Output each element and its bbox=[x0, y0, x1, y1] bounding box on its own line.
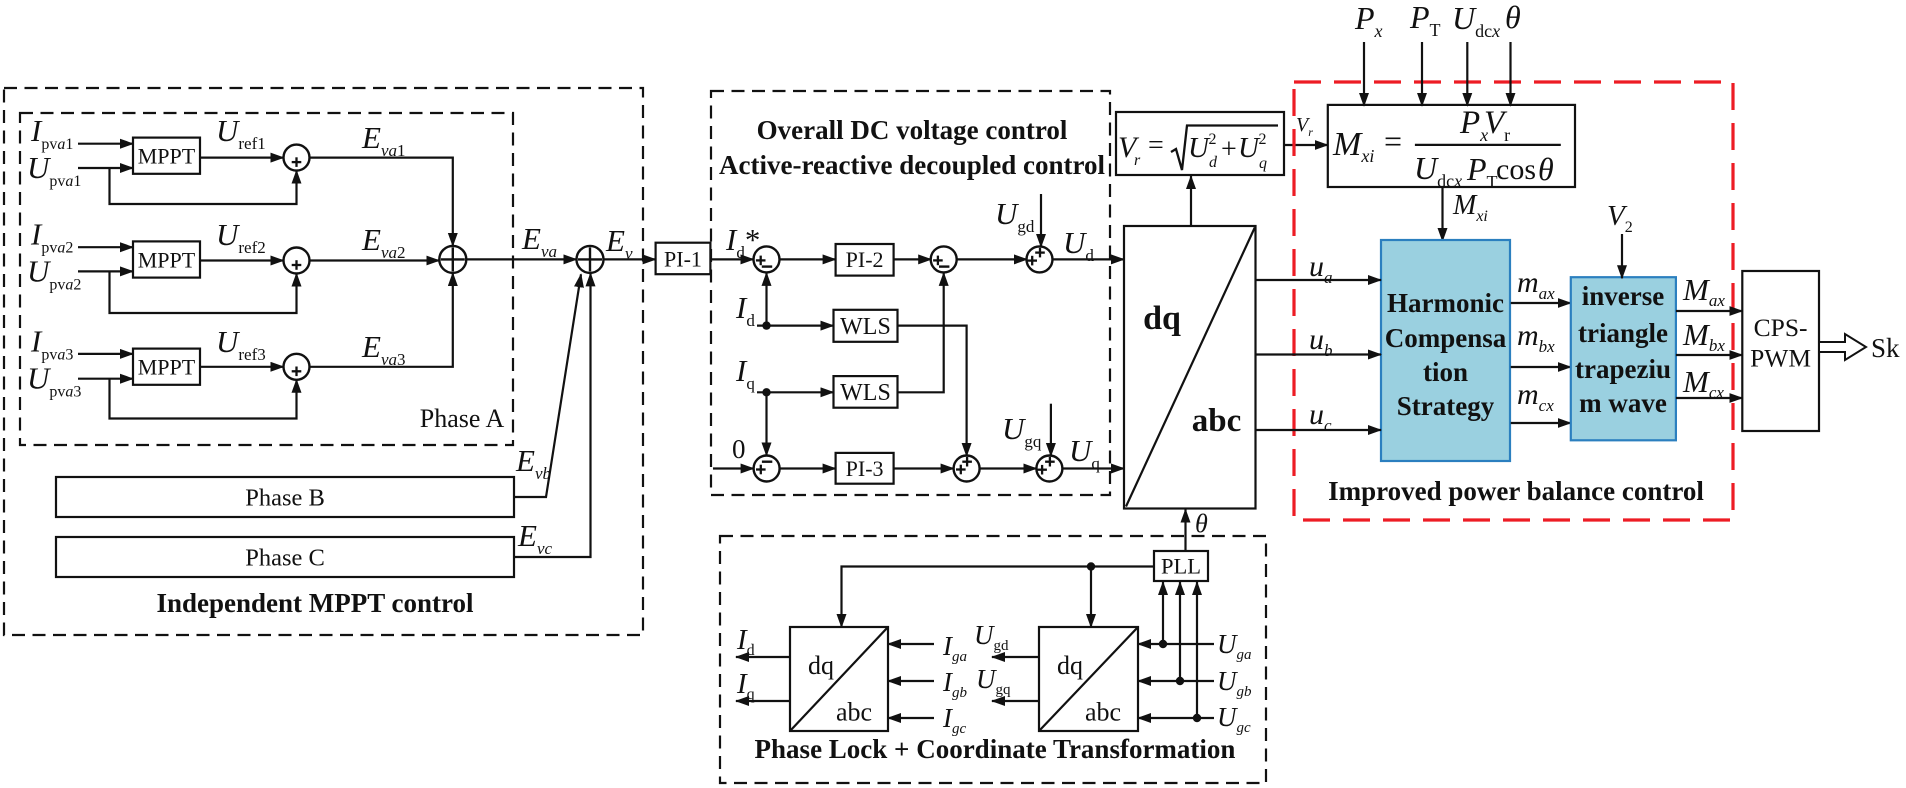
wire Vr to Mxi box bbox=[1284, 144, 1328, 146]
svg-text:PLL: PLL bbox=[1161, 554, 1201, 579]
block dq/abc current transform bbox=[790, 627, 888, 731]
svg-text:Overall DC voltage control: Overall DC voltage control bbox=[757, 115, 1068, 145]
wire I_pva2 input bbox=[78, 246, 133, 248]
svg-text:Strategy: Strategy bbox=[1397, 391, 1495, 421]
red dashed box: Improved power balance control bbox=[1294, 82, 1733, 520]
wire U_gb input bbox=[1138, 680, 1214, 682]
wire junction2 to junction3 bbox=[957, 258, 1027, 260]
svg-text:Phase A: Phase A bbox=[420, 404, 505, 433]
svg-text:r: r bbox=[1134, 152, 1141, 169]
wire U_gc tap to PLL bbox=[1196, 582, 1198, 718]
svg-text:PI-2: PI-2 bbox=[846, 247, 884, 272]
wire m_ax to inverse triangle box bbox=[1511, 302, 1571, 304]
svg-text:q: q bbox=[1259, 155, 1267, 172]
svg-text:2: 2 bbox=[1259, 131, 1267, 148]
wire m_cx to inverse triangle box bbox=[1511, 422, 1571, 424]
svg-text:WLS: WLS bbox=[840, 314, 891, 340]
wire U_gq into junction 6 bbox=[1050, 404, 1052, 456]
junction dot U_ga tap bbox=[1159, 640, 1167, 648]
wire M_ax to CPS-PWM bbox=[1676, 310, 1742, 312]
wire E_va to three-phase adder bbox=[466, 258, 576, 260]
svg-text:CPS-: CPS- bbox=[1754, 313, 1808, 342]
wire U_dcx into Mxi box bbox=[1466, 42, 1468, 106]
wire U_gb tap to PLL bbox=[1179, 582, 1181, 681]
block dq/abc voltage transform bbox=[1039, 627, 1138, 731]
summing junction 4 (+,-) bbox=[754, 456, 780, 482]
wire junction4 to PI-3 bbox=[780, 467, 836, 469]
wire E_va2 to phase adder bbox=[310, 259, 440, 261]
wire M_bx to CPS-PWM bbox=[1676, 354, 1742, 356]
svg-text:dq: dq bbox=[1057, 651, 1083, 680]
wire WLS2 output up to junction 2 bbox=[898, 273, 944, 392]
wire V_2 into inverse triangle box bbox=[1621, 234, 1623, 278]
wire E_va1 to phase adder bbox=[310, 158, 453, 246]
wire E_vc from Phase C to adder bbox=[514, 273, 591, 557]
svg-text:Active-reactive decoupled cont: Active-reactive decoupled control bbox=[719, 150, 1105, 180]
svg-text:WLS: WLS bbox=[840, 380, 891, 406]
svg-text:θ: θ bbox=[1195, 509, 1208, 538]
wire feedback U_pva2 to adder 2 bbox=[110, 271, 297, 313]
block PI-3 bbox=[836, 453, 894, 484]
svg-text:cos: cos bbox=[1496, 153, 1536, 186]
svg-text:2: 2 bbox=[1209, 131, 1217, 148]
block PLL bbox=[1154, 551, 1208, 581]
svg-text:+: + bbox=[1221, 134, 1237, 165]
wire theta into Mxi box bbox=[1509, 42, 1511, 106]
block MPPT 2 bbox=[133, 241, 200, 277]
wire U_pva1 input bbox=[78, 167, 133, 169]
wire E_va3 to phase adder bbox=[310, 273, 453, 367]
junction dot U_gc tap bbox=[1193, 714, 1201, 722]
wire u_c from dq to Harmonic bbox=[1256, 429, 1382, 431]
wire junction1 to PI-2 bbox=[780, 258, 836, 260]
svg-text:=: = bbox=[1384, 123, 1402, 159]
svg-text:Phase Lock + Coordinate Transf: Phase Lock + Coordinate Transformation bbox=[755, 734, 1236, 764]
block MPPT 1 bbox=[133, 138, 200, 174]
wire u_b from dq to Harmonic bbox=[1256, 353, 1382, 355]
wire u_a from dq to Harmonic bbox=[1256, 279, 1382, 281]
block Vr = sqrt(Ud^2+Uq^2) bbox=[1116, 112, 1284, 175]
svg-text:abc: abc bbox=[1085, 698, 1121, 727]
wire PI-3 to junction 5 bbox=[894, 467, 954, 469]
wire PLL line down to right dq block bbox=[1090, 567, 1092, 628]
svg-text:Harmonic: Harmonic bbox=[1387, 288, 1504, 318]
block WLS upper bbox=[834, 310, 898, 342]
wire feedback U_pva3 to adder 3 bbox=[110, 379, 297, 419]
wire 0 into junction 4 bbox=[713, 467, 754, 469]
svg-text:Sk: Sk bbox=[1871, 333, 1900, 363]
wire dq top to Vr box bbox=[1190, 176, 1192, 226]
summing junction row 1 (+) bbox=[284, 145, 310, 171]
svg-text:PI-1: PI-1 bbox=[664, 247, 702, 272]
svg-text:triangle: triangle bbox=[1578, 318, 1668, 348]
block PI-1 bbox=[656, 243, 711, 275]
svg-text:Independent MPPT control: Independent MPPT control bbox=[156, 588, 474, 618]
svg-text:dq: dq bbox=[808, 651, 834, 680]
wire Iq horizontal bbox=[757, 391, 834, 393]
wire U_ref3: MPPT 3 output to adder bbox=[200, 366, 284, 368]
junction dot Id bbox=[762, 321, 770, 329]
wire Id feedback horizontal bbox=[757, 325, 834, 327]
dashed box: Phase A bbox=[20, 113, 513, 445]
wire U_gd output bbox=[992, 656, 1039, 658]
summing junction Id (+,-) bbox=[754, 246, 780, 272]
wire I_ga input bbox=[888, 643, 934, 645]
block dq/abc transform (main) bbox=[1124, 226, 1256, 509]
wire feedback U_pva1 to adder 1 bbox=[110, 168, 297, 204]
svg-text:MPPT: MPPT bbox=[138, 355, 196, 380]
wire U_q to dq block bbox=[1062, 467, 1124, 469]
svg-text:PI-3: PI-3 bbox=[846, 456, 884, 481]
three-phase adder (circle-plus) bbox=[577, 246, 604, 273]
wire PLL output to left dq block bbox=[842, 567, 1155, 628]
wire PI-1 output to summing junction 1 bbox=[710, 258, 753, 260]
junction dot Iq bbox=[762, 388, 770, 396]
wire U_ref2: MPPT 2 output to adder bbox=[200, 259, 284, 261]
wire U_pva2 input bbox=[78, 270, 133, 272]
wire P_T into Mxi box bbox=[1421, 42, 1423, 106]
wire theta from PLL to dq block bbox=[1184, 510, 1186, 552]
block Phase C bbox=[56, 537, 514, 577]
wire U_ref1: MPPT 1 output to adder bbox=[200, 157, 284, 159]
wire I_gb input bbox=[888, 680, 934, 682]
block Harmonic Compensation Strategy bbox=[1381, 240, 1510, 461]
svg-text:Phase C: Phase C bbox=[245, 545, 325, 572]
summing junction row 3 (+) bbox=[284, 354, 310, 380]
svg-text:tion: tion bbox=[1423, 357, 1468, 387]
wire U_pva3 input bbox=[78, 378, 133, 380]
hollow arrow Sk output bbox=[1819, 334, 1866, 360]
summing junction 2 (+,-) bbox=[931, 246, 957, 272]
block Phase B bbox=[56, 477, 514, 517]
svg-text:Improved power balance control: Improved power balance control bbox=[1328, 476, 1704, 506]
svg-text:dq: dq bbox=[1143, 300, 1181, 337]
block MPPT 3 bbox=[133, 349, 200, 385]
wire U_d to dq block bbox=[1053, 258, 1125, 260]
wire junction5 to junction6 bbox=[980, 467, 1037, 469]
wire M_cx to CPS-PWM bbox=[1676, 397, 1742, 399]
wire U_ga input bbox=[1138, 643, 1214, 645]
wire E_v to PI-1 bbox=[604, 258, 656, 260]
svg-text:m wave: m wave bbox=[1579, 388, 1667, 418]
svg-text:Compensa: Compensa bbox=[1385, 323, 1507, 353]
wire P_x into Mxi box bbox=[1363, 42, 1365, 106]
dashed box: Independent MPPT control bbox=[4, 88, 643, 635]
wire E_vb from Phase B to adder bbox=[514, 274, 581, 497]
wire U_gq output bbox=[992, 700, 1039, 702]
svg-text:MPPT: MPPT bbox=[138, 144, 196, 169]
svg-text:d: d bbox=[1209, 154, 1218, 171]
wire PI-2 to summing junction 2 bbox=[894, 258, 932, 260]
wire Id up into summing junction 1 bbox=[765, 273, 767, 326]
wire U_gd into junction 3 bbox=[1040, 194, 1042, 247]
dashed box: Phase Lock + Coordinate Transformation bbox=[720, 536, 1266, 783]
summing junction 3 (+,+) bbox=[1027, 246, 1053, 272]
wire I_pva3 input bbox=[78, 353, 133, 355]
junction dot U_gb tap bbox=[1176, 677, 1184, 685]
svg-text:Phase B: Phase B bbox=[245, 485, 325, 512]
wire WLS1 output down to junction 5 bbox=[898, 326, 967, 456]
dashed box: Overall DC voltage / Active-reactive decoupled control bbox=[711, 91, 1110, 495]
wire m_bx to inverse triangle box bbox=[1511, 366, 1571, 368]
svg-text:PWM: PWM bbox=[1750, 344, 1811, 373]
wire I_q output bbox=[736, 700, 790, 702]
svg-text:trapeziu: trapeziu bbox=[1575, 354, 1671, 384]
svg-text:abc: abc bbox=[836, 698, 872, 727]
junction dot PLL line bbox=[1087, 562, 1095, 570]
summing junction 5 (+,+) bbox=[954, 456, 980, 482]
phase A adder (circle-plus) bbox=[439, 246, 466, 273]
wire U_ga tap to PLL bbox=[1162, 582, 1164, 644]
block CPS-PWM bbox=[1742, 271, 1819, 431]
svg-text:inverse: inverse bbox=[1582, 281, 1664, 311]
svg-text:=: = bbox=[1148, 130, 1164, 161]
svg-text:θ: θ bbox=[1538, 151, 1554, 187]
block Mxi formula bbox=[1328, 105, 1575, 187]
wire I_d output bbox=[736, 656, 790, 658]
wire I_gc input bbox=[888, 717, 934, 719]
summing junction row 2 (+) bbox=[284, 248, 310, 274]
wire U_gc input bbox=[1138, 717, 1214, 719]
summing junction 6 (+,+) bbox=[1036, 456, 1062, 482]
svg-text:θ: θ bbox=[1505, 0, 1521, 35]
svg-text:abc: abc bbox=[1192, 403, 1242, 439]
svg-text:MPPT: MPPT bbox=[138, 247, 196, 272]
block WLS lower bbox=[834, 376, 898, 408]
block inverse triangle trapezium wave bbox=[1571, 277, 1676, 440]
wire Iq down into junction 4 bbox=[765, 392, 767, 455]
block PI-2 bbox=[836, 244, 894, 276]
wire Mxi output to Harmonic box bbox=[1441, 187, 1443, 241]
wire I_pva1 input bbox=[78, 143, 133, 145]
svg-text:0: 0 bbox=[732, 434, 746, 464]
